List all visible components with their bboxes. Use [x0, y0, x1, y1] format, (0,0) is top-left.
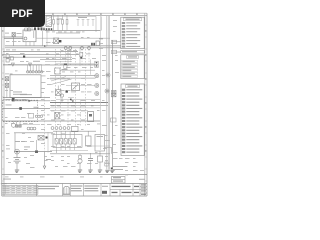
label near W1 — [24, 146, 30, 149]
junction block fuse crosses — [55, 139, 76, 145]
ground G6 — [98, 170, 102, 172]
lamp E5 — [60, 94, 63, 97]
sensor S1 box — [98, 156, 103, 162]
connector pin square P2 — [19, 125, 21, 127]
junction block lower stems — [57, 144, 75, 150]
feeder wire below top band — [52, 15, 97, 17]
inline fuse F14 — [112, 94, 117, 97]
title cell text block 2 — [71, 186, 83, 192]
title block top border — [2, 183, 147, 185]
arrow terminal down A2 — [29, 63, 32, 66]
arrow terminal down A3 — [43, 166, 46, 169]
ring terminal RT4 inner — [106, 90, 108, 92]
wire from F7 down — [13, 37, 15, 46]
fuse F8 — [54, 38, 59, 44]
drawing area bottom border — [2, 174, 147, 176]
stems below connector circles — [28, 65, 42, 71]
page info divider — [112, 179, 126, 181]
module M1 inner label — [13, 93, 27, 96]
end sensor box — [105, 162, 109, 166]
wire number labels speckle — [5, 20, 144, 177]
dashed wire run 6 — [80, 100, 82, 126]
connector with dark cap — [64, 63, 67, 65]
connector dark pin — [80, 57, 82, 59]
bus line y99.3 — [3, 98, 28, 100]
wire drops below fuse row — [54, 24, 68, 30]
trunk wire W4 — [109, 16, 111, 170]
ECU bottom bus y121 — [3, 120, 100, 122]
resistor R2 — [6, 59, 9, 62]
stacked connector lower — [95, 64, 98, 67]
ring terminal RT3 inner — [96, 93, 98, 95]
distribution line y64.9 strong — [3, 64, 95, 66]
trunk stub y52 — [113, 51, 121, 53]
stems below lamp circles — [66, 50, 89, 67]
capacitor C1 lead — [90, 153, 92, 159]
connector pin square P1 — [16, 125, 18, 127]
M4 trunk wire bend — [111, 148, 113, 154]
junction pin dark T — [66, 90, 68, 92]
wire down from ECU b — [19, 121, 21, 125]
page info text a — [113, 176, 121, 179]
ground G4 — [78, 170, 82, 172]
ring terminal RT2 inner — [96, 85, 98, 87]
label left of F7 — [5, 32, 9, 35]
label left of W2 — [99, 38, 103, 41]
wire seg x42.5 — [42, 31, 44, 46]
arrow head on bus — [44, 45, 47, 47]
arrow wire x44.5 — [44, 152, 46, 166]
sensor S1 feed — [99, 153, 101, 156]
feed line y132.8 — [14, 132, 53, 134]
wire y70 mid — [60, 69, 95, 71]
mid bus y107.9 — [50, 107, 101, 109]
wire y124.5 partial — [20, 124, 40, 126]
wire y61.5 — [45, 61, 72, 63]
revision table text blur — [2, 186, 37, 193]
slanted harness wire 1 — [51, 79, 72, 85]
ground G8 — [110, 170, 114, 172]
note cell text — [122, 51, 137, 52]
arrow on ECU wire — [29, 99, 32, 102]
slanted harness wire 2 — [51, 77, 66, 82]
wire y75.7 — [50, 75, 96, 77]
frame left outer line — [1, 13, 3, 196]
wire y110.5 mid — [50, 110, 88, 112]
dark connector stub top — [12, 98, 15, 101]
arrow terminal down A1 — [12, 63, 15, 66]
bottom bus y153.8 — [50, 153, 110, 155]
capacitor C1 — [88, 159, 93, 161]
title block revision table — [2, 185, 38, 194]
page info box — [112, 177, 126, 184]
wire F15 down — [36, 140, 38, 150]
frame left inner line — [3, 13, 5, 196]
fuse F11 — [56, 90, 62, 96]
ground stud W1b outer — [15, 149, 20, 154]
dark terminal pins under badge — [34, 28, 43, 31]
dark end dot trunk — [111, 168, 113, 170]
connector pin squares row — [41, 28, 53, 30]
fuse F15 — [38, 136, 44, 141]
wire seg x68 — [67, 47, 69, 66]
legend box L2 (Relais list) — [121, 55, 144, 79]
wire F11 top — [57, 86, 59, 90]
fuse row F1-F4 symbols — [53, 20, 68, 25]
drawing number text — [112, 185, 147, 195]
inline connector X7 — [112, 40, 117, 44]
relay K3 box — [86, 136, 92, 146]
page number text — [139, 178, 145, 181]
wire F9-F10 — [6, 81, 8, 84]
dashed wire run 5 — [67, 100, 69, 126]
legend box L1 (Elements list) — [121, 17, 144, 49]
terminal T-symbols row — [77, 20, 95, 27]
ground G5 — [88, 170, 92, 172]
relay K1 coil circle — [24, 37, 27, 40]
ring terminal RT2 — [95, 84, 99, 88]
wire bus into relay K1 (lower) — [4, 37, 23, 39]
ECU inner label 2 — [6, 104, 12, 107]
battery feed box B1 — [46, 16, 52, 27]
B1 hatch — [46, 17, 52, 27]
ring terminal RT4 — [105, 89, 109, 93]
bus line y30 — [45, 30, 101, 32]
legend L3 header — [126, 85, 140, 88]
legend L2 header — [127, 56, 139, 59]
module M1 inner label2 — [13, 91, 22, 94]
feeder wire bend down x96 — [95, 16, 97, 32]
bus line y151.6 — [14, 151, 52, 153]
wire labels right bottom — [113, 165, 127, 168]
main bus line 2 — [5, 47, 144, 49]
PDF badge — [0, 0, 45, 27]
distribution line y57 — [3, 56, 72, 58]
logo arch pillars — [65, 187, 68, 194]
connector with pin — [80, 52, 83, 56]
ground G2 — [15, 170, 19, 172]
junction dots cluster — [70, 99, 74, 102]
trunk wire W2 — [100, 16, 102, 150]
terminal squares under badge — [25, 28, 31, 31]
dashed wire run 1 — [55, 49, 57, 126]
wire labels right bottom 2 — [113, 168, 123, 171]
dark stamp in title cell — [102, 191, 107, 194]
horn H1 — [78, 159, 82, 163]
fuse F10 — [5, 83, 8, 87]
K3 feed — [87, 131, 89, 136]
distribution line y51.5 — [3, 51, 78, 53]
wire stubs under badge — [29, 27, 44, 31]
label above y96 line — [20, 93, 32, 96]
wire seg x44.5 long — [44, 97, 46, 152]
dashed wire run 4 — [85, 49, 87, 126]
junction blob on y108.5 — [19, 107, 22, 110]
wire F10 down — [6, 87, 8, 97]
relay K1 drops below — [26, 42, 34, 46]
junction dot near F8 — [59, 40, 61, 42]
wire bus into relay K1 (upper) — [4, 36, 23, 38]
distribution line y59.5 — [40, 59, 72, 61]
battery G1 plates — [14, 158, 21, 163]
junction mark on y151.6 — [35, 150, 38, 153]
wire vertical drops from top bus — [54, 15, 68, 19]
label right of arrow — [46, 158, 51, 161]
ring terminal RT1 inner — [96, 75, 98, 77]
ring terminal RT5 inner — [107, 74, 109, 76]
resistor R1 — [6, 55, 9, 58]
legend L1 rows — [122, 22, 140, 48]
ECU internal bus y108.5 — [3, 108, 50, 110]
wire seg x47 — [46, 31, 48, 46]
connector box X1 — [96, 41, 99, 46]
inline connector X8 — [112, 50, 117, 54]
stacked connector upper — [95, 61, 98, 64]
page info text b — [113, 180, 123, 183]
ring terminal RT1 — [95, 74, 99, 78]
bus stub to trunk y38 — [36, 37, 110, 39]
ring terminal RT5 — [106, 73, 110, 77]
wire y146 mid — [85, 145, 110, 147]
driver stage box — [29, 114, 34, 119]
trunk wire W3 — [106, 16, 108, 170]
resistor R3 — [10, 57, 13, 60]
frame left coordinate ticks — [2, 25, 4, 193]
fuse F12 — [55, 112, 60, 119]
label right x20 b — [21, 140, 25, 143]
date text small — [3, 178, 11, 181]
wire T1 down — [14, 133, 16, 152]
frame zone letters left — [2, 30, 3, 152]
frame right coordinate ticks — [145, 25, 147, 193]
ring terminal RT3 — [95, 92, 99, 96]
mid bus dark line — [50, 101, 108, 103]
frame top inner line — [2, 14, 147, 16]
module M4 label — [97, 135, 104, 138]
connector circles row X3 — [27, 127, 36, 130]
sensor S2 stem — [13, 121, 15, 123]
wire y97.3 label — [68, 96, 74, 98]
control module M1 box — [10, 75, 41, 98]
ground stud W1b center — [16, 151, 18, 153]
wire y63.6 right — [55, 63, 94, 65]
connector pin circles row X2 — [27, 71, 43, 73]
wire through connector circles — [26, 71, 44, 73]
legend box L3 (Fusibles table) — [121, 84, 144, 156]
ECU U1 dashed box — [3, 100, 38, 122]
frame right inner line — [144, 13, 146, 196]
wire to ring RT2 — [66, 85, 95, 87]
wire out of ECU y100.8 — [13, 100, 51, 102]
frame right outer line — [146, 13, 148, 196]
relay K2 contact diagonal — [73, 85, 79, 90]
relay K1 contact lead b — [35, 31, 37, 38]
junction block stems down — [56, 150, 58, 153]
legend L3 rows — [122, 89, 142, 154]
mid bus y99.7 — [56, 99, 101, 101]
wire seg x80 — [79, 47, 81, 66]
revision header text — [1, 182, 7, 185]
stacked connector pins — [96, 62, 98, 67]
bus line y33 — [56, 32, 80, 34]
module M4 lead down — [99, 151, 101, 154]
relay K2 box — [72, 83, 80, 91]
wire y78.1 — [50, 77, 96, 79]
distribution line y54.7 — [3, 54, 79, 56]
lamp circles row E1-E4 — [64, 47, 90, 50]
fuse F7 — [12, 33, 15, 37]
wire y79 mid — [50, 78, 70, 80]
frame bottom line — [2, 195, 147, 197]
horn H1 feed — [79, 154, 81, 156]
M2 label — [62, 68, 68, 71]
title cell text company — [38, 186, 59, 189]
stamp cell small text — [102, 185, 108, 188]
module M4 box — [95, 135, 105, 152]
small box X6 — [72, 126, 79, 131]
label near fuse row — [78, 16, 87, 19]
dashed wire run 2 — [60, 49, 62, 126]
logo arch — [63, 186, 70, 194]
small box M2 — [55, 68, 60, 74]
connector body — [64, 65, 67, 68]
main bus line 1 — [5, 45, 144, 47]
sensor circle S2 — [12, 123, 16, 127]
wire battery to ground — [16, 163, 18, 170]
M4 to trunk wire — [105, 147, 112, 149]
relay K1 box — [23, 30, 36, 42]
wire y150 mid — [50, 150, 88, 152]
transistor circles row — [35, 115, 42, 117]
junction block feed stems — [57, 131, 75, 138]
relay K1 contact lead a — [33, 31, 35, 38]
junction dot J1 — [23, 56, 25, 58]
title cell text block 3 — [84, 186, 99, 192]
feeder wire x101.5 — [101, 16, 103, 30]
wire seg x48 low — [47, 132, 49, 153]
frame zone letters top — [52, 14, 138, 15]
ECU inner label 1 — [34, 106, 39, 109]
wire down from ECU a — [16, 121, 18, 125]
frame top outer line — [2, 12, 147, 14]
trunk wire W4b dark — [112, 40, 114, 170]
fuse F9 — [5, 77, 8, 81]
wire seg x90.5 — [90, 60, 92, 75]
inline fuse F13 — [112, 91, 117, 94]
svg-text:PDF: PDF — [11, 8, 33, 20]
label right of F7 — [17, 32, 22, 35]
mid bus y105.3 — [50, 104, 108, 106]
title block cell borders — [37, 184, 148, 197]
label right x15 a — [15, 140, 20, 143]
junction block outline — [53, 135, 82, 148]
frame zone letters right — [145, 30, 146, 152]
connector circles row X5 — [51, 127, 70, 130]
horn feed box — [79, 155, 82, 158]
motor M3 inner mark — [89, 114, 92, 117]
capacitor C1 lead2 — [90, 161, 92, 170]
bus line y97.6 — [3, 97, 50, 99]
ground G7 — [105, 170, 109, 172]
lamp E5 stem — [61, 97, 63, 102]
horn H1 lead — [79, 163, 81, 169]
trunk stub y41.8 — [113, 41, 121, 43]
junction block fuse squares — [55, 139, 76, 145]
inline connector X9 — [111, 118, 117, 122]
motor M3 box — [88, 112, 94, 122]
dashed wire run 3 — [75, 49, 77, 126]
legend L1 header — [124, 18, 142, 21]
frame top coordinate ticks — [5, 13, 137, 15]
label near B1 — [57, 18, 63, 21]
trunk wire W3b — [107, 16, 109, 170]
legend single note cell — [121, 50, 144, 53]
wire label y61 — [33, 60, 40, 63]
junction dot right of F15 — [46, 137, 48, 139]
feed line y131.2 mid — [53, 130, 96, 132]
pin marks row — [91, 43, 95, 46]
legend L2 rows — [122, 60, 138, 77]
logo base line — [63, 194, 71, 196]
sensor S1 lead — [99, 162, 101, 170]
wire stud to battery — [16, 152, 18, 158]
